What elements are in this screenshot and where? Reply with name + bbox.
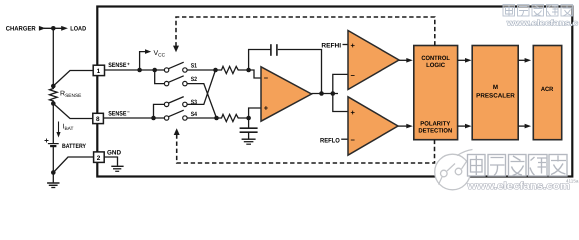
arrow load [61,26,68,31]
switch S2 [169,76,184,83]
svg-text:S4: S4 [191,111,198,118]
node comparator split [331,91,336,96]
dashed control path bottom [177,134,435,163]
node bottom before resistor [214,116,219,121]
svg-text:8: 8 [96,116,100,123]
resistor RSENSE [50,86,58,104]
svg-text:LOAD: LOAD [70,25,86,32]
wire comparator U3 output [398,125,407,127]
battery [48,143,59,145]
wire diagonal to SENSE- pin [53,104,93,119]
IC boundary box [97,7,572,177]
svg-text:+: + [264,104,269,113]
arrow charger [39,26,46,31]
capacitor feedback plates [270,44,272,56]
svg-text:M: M [493,84,498,91]
svg-text:−: − [264,74,269,83]
node top of RSENSE [51,84,56,89]
wire S2 branch [155,70,165,84]
node feedback junction [319,91,324,96]
wire jog to plus input [249,108,261,118]
wire diagonal to GND pin [53,157,93,173]
svg-text:ACR: ACR [541,86,554,93]
svg-text:REFLO: REFLO [320,138,340,145]
svg-text:1: 1 [97,68,101,75]
ground internal at GND pin [104,157,117,166]
comparator U3 REFLO [348,97,398,155]
wire RSENSE to battery [52,104,54,144]
node top junction [51,26,56,31]
svg-text:S2: S2 [191,76,198,83]
wire battery to ground node [52,147,54,173]
wire prescaler to ACR bottom [518,125,525,127]
block M PRESCALER [472,46,518,140]
wire comparator U2 output [399,59,407,61]
svg-text:CHARGER: CHARGER [6,25,36,32]
resistor top [220,66,249,73]
wire S2 cross down [187,84,216,118]
arrow IBAT [58,122,60,134]
svg-text:+: + [351,41,356,50]
wire SENSE- internal [103,117,164,119]
wire polarity to prescaler [458,125,466,127]
ground below capacitor [242,138,256,140]
pin 8 SENSE- [93,113,104,123]
node top before resistor [213,68,218,73]
svg-text:BATTERY: BATTERY [62,143,87,150]
resistor bottom [220,114,249,121]
svg-text:SENSE: SENSE [108,62,127,69]
svg-text:SENSE: SENSE [108,110,127,117]
wire S1 to node [187,69,219,71]
ground external [52,173,54,183]
node op-amp plus input [246,116,251,121]
svg-text:4115a: 4115a [566,178,579,183]
wire prescaler to ACR top [518,59,525,61]
wire SENSE+ internal [105,69,165,71]
dashed control path top [176,17,435,47]
svg-text:−: − [351,71,356,80]
node battery ground junction [51,170,56,175]
node VCC branch [137,68,142,73]
svg-text:PRESCALER: PRESCALER [476,93,515,100]
wire to REFLO comparator plus [333,94,348,112]
svg-text:S1: S1 [191,62,198,69]
wire to REFHI comparator minus [333,74,348,93]
svg-text:−: − [351,135,356,144]
svg-text:DETECTION: DETECTION [418,127,452,134]
wire jog to minus input [249,70,261,78]
battery plus sign [45,139,49,143]
wire S4 to node [187,117,219,119]
switch S1 [169,62,184,68]
wire diagonal to SENSE+ pin [53,71,93,87]
node op-amp minus input [246,68,251,73]
op-amp U1 [261,67,312,121]
block ACR [533,46,561,140]
svg-text:www.elecfans.c: www.elecfans.c [506,18,579,27]
wire CHARGER to LOAD [44,27,63,29]
watermark top right hanzi row [503,5,573,17]
svg-text:+: + [351,108,356,117]
wire S3 branch [154,104,165,118]
node S2 branch [152,68,157,73]
node bottom of RSENSE [51,101,56,106]
svg-text:www.elecfans.com: www.elecfans.com [466,181,570,192]
svg-text:LOGIC: LOGIC [426,62,446,69]
svg-text:+: + [127,62,130,67]
svg-text:REFHI: REFHI [321,43,341,50]
wire vertical from charger node [52,28,54,86]
capacitor to ground plates [240,127,258,129]
wire op-amp output [312,93,339,95]
node S3 branch [151,116,156,121]
block CONTROL LOGIC / POLARITY DETECTION [414,46,458,140]
comparator U2 REFHI [348,31,399,90]
pin 1 SENSE+ [93,65,104,75]
VCC arrow [140,52,146,70]
svg-text:GND: GND [107,150,121,157]
switch S3 [169,97,184,104]
svg-text:−: − [127,111,130,116]
watermark logo circle bottom right [435,150,473,190]
watermark hanzi row [468,155,568,177]
svg-text:2: 2 [97,155,101,162]
feedback wire with capacitor [249,50,271,71]
switch S4 [169,110,184,117]
wire S3 cross up [187,70,215,104]
wire control logic to prescaler [458,59,466,61]
pin 2 GND [94,152,105,163]
